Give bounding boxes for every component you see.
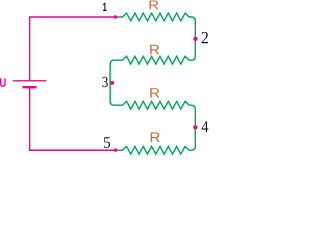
resistor R1 label — [149, 0, 158, 9]
node 2 label — [202, 32, 208, 43]
resistor R2 label — [150, 45, 159, 55]
label U (source voltage) — [0, 78, 6, 87]
battery U negative plate (short thick) — [23, 86, 37, 88]
node 5 junction dot — [114, 148, 117, 151]
node 2 junction dot — [193, 37, 197, 41]
node 1 junction dot — [114, 15, 118, 19]
resistor R3 label — [150, 88, 159, 98]
node 3 label — [102, 77, 107, 87]
node 5 label — [104, 137, 110, 148]
node 1 label — [103, 3, 107, 11]
battery U positive plate (long thin) — [13, 80, 47, 82]
resistor R4 label — [151, 132, 160, 142]
wire: green serpentine with resistors, node1 to node5 — [110, 13, 195, 154]
wire: magenta loop left side (top wire, left vertical, bottom wire) — [30, 17, 116, 81]
node 4 label — [202, 121, 209, 132]
wire: magenta from battery negative down and to node 5 — [30, 87, 116, 150]
node 3 junction dot — [110, 81, 114, 85]
node 4 junction dot — [193, 125, 197, 129]
